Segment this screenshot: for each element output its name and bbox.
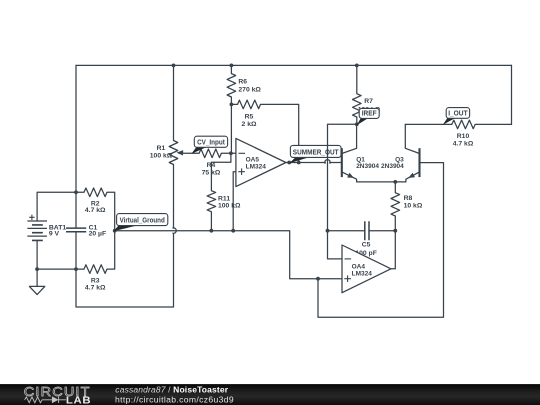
node IREF junction (355, 122, 359, 126)
junction V+ rail / R7 top (355, 64, 359, 68)
svg-text:SUMMER_OUT: SUMMER_OUT (293, 147, 339, 156)
svg-text:4.7 kΩ: 4.7 kΩ (453, 140, 474, 147)
junction battery positive / left rail (74, 190, 78, 194)
footer watermark bar (0, 384, 540, 405)
wire C1 top lead (75, 192, 77, 228)
wire battery negative down (36, 240, 38, 269)
potentiometer R1 100k (150, 141, 183, 165)
wire R6 bottom lead to R5 node (230, 97, 232, 104)
wire Q1 collector to IREF node (356, 124, 358, 148)
node flag CV_Input (191, 136, 227, 154)
wire R7 bottom lead to IREF node (356, 117, 358, 124)
svg-text:2 kΩ: 2 kΩ (242, 121, 257, 128)
svg-text:100 kΩ: 100 kΩ (218, 203, 241, 210)
junction OA4 plus / Q3 base loop (316, 277, 320, 281)
wire Q3 collector up to I_OUT line (404, 124, 406, 148)
resistor R7 (value hidden behind IREF flag) (353, 94, 381, 117)
wire OA5 plus pin down to virtual ground rail (233, 172, 236, 231)
wire bottom-left return to R1 bottom, hopping over virtual ground rail (76, 165, 176, 308)
resistor R6 270k (227, 74, 261, 97)
wire I_OUT line left of R10 (405, 123, 452, 125)
wire top V+ rail (76, 64, 512, 66)
battery BAT1 9V (27, 215, 66, 241)
svg-text:CV_Input: CV_Input (197, 137, 225, 146)
junction C5 left / OA4 minus node (326, 229, 330, 233)
svg-text:R6: R6 (238, 79, 247, 86)
junction OA5 output / SUMMER_OUT attach (287, 161, 291, 165)
svg-text:Virtual_Ground: Virtual_Ground (120, 216, 166, 225)
wire left vertical from V+ rail to battery node (75, 65, 77, 192)
junction R6 / R5 node (230, 103, 234, 107)
node flag IREF (357, 108, 380, 125)
svg-text:75 kΩ: 75 kΩ (202, 170, 221, 177)
wire virtual ground rail to OA4 plus input (115, 231, 342, 279)
svg-text:2N3904: 2N3904 (381, 163, 404, 170)
wire R5 right lead down to OA5 output (261, 104, 299, 162)
svg-text:4.7 kΩ: 4.7 kΩ (85, 285, 106, 292)
wire R8 bottom lead (394, 216, 396, 231)
CircuitLab logo (24, 384, 91, 405)
svg-text:cassandra87 / NoiseToaster: cassandra87 / NoiseToaster (115, 385, 228, 395)
wire R4 right lead into OA5 minus pin (221, 152, 236, 154)
footer credit text (115, 385, 234, 405)
svg-text:R8: R8 (404, 195, 413, 202)
wire Q3 base loop to OA4 plus node (318, 163, 444, 318)
wire R11 bottom lead to virtual ground rail (210, 212, 212, 231)
svg-text:R5: R5 (245, 114, 254, 121)
svg-text:R7: R7 (364, 98, 373, 105)
op-amp OA5 LM324 (236, 138, 286, 186)
node Virtual_Ground attach (113, 229, 117, 233)
capacitor C5 100pF (355, 221, 377, 257)
ground symbol (29, 286, 44, 294)
wire IREF node drop to OA4 minus input (328, 124, 357, 259)
resistor R8 10k (391, 193, 423, 216)
svg-text:LAB: LAB (66, 396, 91, 405)
junction emitter rail / R8 (393, 180, 397, 184)
resistor R11 100k (207, 191, 241, 212)
transistor Q3 2N3904 (mirrored) (381, 148, 419, 182)
svg-text:9 V: 9 V (49, 231, 60, 238)
junction battery negative / ground (35, 267, 39, 271)
junction R4 / OA5 minus node (229, 151, 233, 155)
svg-text:R4: R4 (207, 162, 216, 169)
wire right side of V+ loop (511, 65, 513, 124)
svg-text:R3: R3 (91, 277, 100, 284)
wire R5 left lead (231, 103, 237, 105)
wire R3 right lead up to virtual ground node (107, 231, 115, 269)
transistor Q1 2N3904 (342, 148, 380, 182)
resistor R5 2k (238, 100, 261, 128)
svg-text:LM324: LM324 (352, 270, 373, 277)
junction C5 right / R8 / OA4 output (393, 229, 397, 233)
junction R11 / virtual ground rail (210, 229, 214, 233)
resistor R2 4.7k (84, 188, 107, 214)
junction OA5 output / R5 feedback (297, 161, 301, 165)
wire battery negative to R3 (37, 268, 84, 270)
svg-text:R1: R1 (157, 145, 166, 152)
resistor R3 4.7k (84, 265, 107, 292)
op-amp OA4 LM324 (342, 245, 391, 293)
svg-text:I_OUT: I_OUT (448, 108, 468, 117)
wire R2 right lead down to virtual ground node (107, 192, 115, 230)
node flag I_OUT (443, 108, 470, 125)
wire C5 left lead (328, 230, 365, 232)
wire R7 top lead (356, 65, 358, 93)
wire C5 right lead (369, 230, 395, 232)
junction V+ rail / R1 top (172, 64, 176, 68)
wire C1 bottom lead (75, 232, 77, 269)
wire R6 top lead (230, 65, 232, 73)
wire R1 wiper to R4 left lead (179, 152, 199, 154)
junction battery negative / left rail (74, 267, 78, 271)
svg-text:R11: R11 (218, 195, 230, 202)
resistor R10 4.7k (452, 120, 475, 147)
node flag SUMMER_OUT (289, 145, 341, 163)
node flag Virtual_Ground (114, 214, 168, 232)
wire R1 top lead to V+ rail (173, 65, 175, 140)
svg-text:20 µF: 20 µF (89, 231, 107, 238)
junction V+ rail / R6 top (230, 64, 234, 68)
capacitor C1 20uF (66, 224, 106, 237)
svg-text:LM324: LM324 (246, 164, 267, 171)
svg-text:4.7 kΩ: 4.7 kΩ (85, 207, 106, 214)
svg-text:http://circuitlab.com/cz6u3d9: http://circuitlab.com/cz6u3d9 (115, 395, 234, 405)
wire node to OA5 minus input (230, 104, 232, 153)
junction OA5 plus / virtual ground rail (231, 229, 235, 233)
svg-text:100 kΩ: 100 kΩ (150, 152, 173, 159)
wire OA4 output to feedback node (391, 231, 395, 269)
wire emitter rail Q1-Q3 (357, 181, 406, 183)
svg-text:IREF: IREF (362, 108, 377, 117)
wire OA5 output with hop over IREF drop, to Q1 base (286, 160, 342, 164)
wire OA5 minus node jog down-left to R11 (211, 153, 231, 190)
svg-text:R10: R10 (457, 133, 470, 140)
svg-text:C5: C5 (362, 242, 371, 249)
svg-text:270 kΩ: 270 kΩ (238, 86, 261, 93)
svg-text:2N3904: 2N3904 (356, 163, 379, 170)
resistor R4 75k (199, 149, 221, 177)
wire battery positive to R2 (37, 192, 84, 221)
svg-text:10 kΩ: 10 kΩ (404, 203, 423, 210)
wire R10 right lead (475, 123, 511, 125)
svg-text:OA5: OA5 (246, 157, 260, 164)
wire R8 top lead (394, 182, 396, 193)
wire ground stem (36, 269, 38, 286)
